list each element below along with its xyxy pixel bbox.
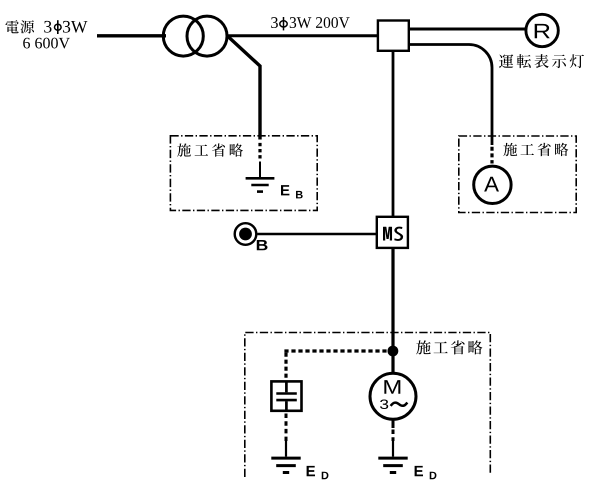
source label 電源 3φ3W <box>5 20 34 33</box>
motor M 3~ <box>370 373 416 419</box>
transformer T (two overlapping circles) <box>163 16 203 56</box>
label EB <box>281 185 289 195</box>
wire: button to MS <box>257 233 377 236</box>
capacitor internal: bottom lead <box>285 401 288 411</box>
wire: motor bottom stub <box>392 419 395 428</box>
label 施工省略 (left) <box>177 143 243 156</box>
wire: curved branch to ammeter <box>409 45 492 146</box>
wire: stub to ground ED (right) <box>392 441 394 457</box>
phi symbol (200V label) <box>280 21 287 27</box>
label B <box>257 240 268 250</box>
ground ED (right) <box>378 457 407 460</box>
label 施工省略 (right) <box>503 143 568 156</box>
wire: transformer secondary to pull box <box>226 34 378 37</box>
label ED (left) <box>307 466 315 476</box>
wire: stub to ground EB <box>259 162 261 178</box>
pushbutton B <box>235 223 257 245</box>
ammeter A <box>474 166 511 203</box>
capacitor plate bottom <box>276 399 297 402</box>
ground ED (left) <box>271 457 300 460</box>
bottom omitted-area box (dash-dot, open bottom) <box>245 333 490 478</box>
wire: dashed capacitor to ground ED <box>285 414 288 442</box>
right omitted-area box (dash-dot) <box>459 136 576 213</box>
wire: dotted segment into right omitted box <box>490 147 493 164</box>
wire: diagonal drop from transformer to EB branch <box>228 37 260 140</box>
capacitor plate top <box>276 392 297 395</box>
label 施工省略 (bottom) <box>416 340 482 354</box>
wire: dotted branch to capacitor (horizontal) <box>284 349 389 352</box>
capacitor box <box>271 381 301 410</box>
wire: dashed motor to ground ED <box>392 430 395 442</box>
source label 6 600V <box>23 38 70 49</box>
label 3φ3W 200V <box>271 17 278 28</box>
wire: incoming 6600V line <box>97 34 166 37</box>
label 運転表示灯 <box>499 54 584 68</box>
junction node dot <box>388 346 399 357</box>
ground EB <box>246 177 275 180</box>
wire: dotted segment into left omitted box <box>258 143 261 161</box>
wire: junction to motor <box>391 351 394 373</box>
capacitor internal: top lead <box>285 381 288 392</box>
lamp R <box>526 14 558 46</box>
wire: pull box down to MS <box>392 51 395 217</box>
wire: pull box to lamp R <box>409 28 525 31</box>
label ED (right) <box>415 466 423 476</box>
magnetic switch MS <box>377 217 408 248</box>
wire: MS down to junction <box>391 248 394 351</box>
pull box <box>378 21 409 51</box>
left omitted-area box (dash-dot) <box>170 136 317 211</box>
motor tilde <box>391 403 408 406</box>
phi symbol (source label) <box>55 24 62 30</box>
wire: stub to ground ED (left) <box>285 441 287 457</box>
wire: dotted branch to capacitor (vertical) <box>284 353 287 381</box>
